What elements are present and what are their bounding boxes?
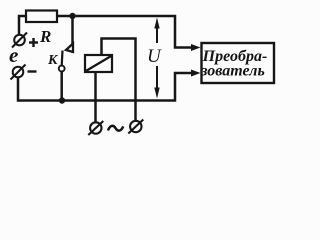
converter box [202, 43, 275, 83]
switch K contact triangle [66, 44, 73, 53]
relay coil (rect with diagonal) [85, 55, 112, 72]
wire: top rail from left corner to converter lead [19, 16, 192, 48]
tilde (AC) [108, 126, 123, 131]
terminal plus (circle with slash) [12, 33, 27, 48]
node: junction dot on bottom rail [59, 97, 65, 103]
svg-text:К: К [47, 53, 59, 68]
wire: bottom rail from minus terminal to converter lead [18, 73, 192, 101]
arrow into converter (upper) [191, 44, 201, 51]
switch K blade [61, 51, 64, 66]
wire: switch pivot to bottom rail [60, 72, 63, 101]
AC terminal right (circle with slash) [128, 120, 143, 134]
arrow into converter (lower) [191, 70, 201, 77]
node: junction dot on top rail [69, 13, 75, 19]
wire: coil top lead to right AC terminal [102, 39, 136, 121]
U measurement arrow upper segment with arrowhead [156, 28, 158, 43]
svg-text:U: U [147, 46, 162, 67]
resistor R [26, 11, 57, 23]
U measurement arrow lower segment with arrowhead [156, 66, 158, 88]
minus sign [28, 70, 37, 72]
terminal minus (circle with slash) [11, 65, 26, 80]
wire: coil bottom lead to left AC terminal [94, 72, 97, 122]
plus sign [29, 38, 38, 47]
AC terminal left (circle with slash) [88, 121, 103, 135]
svg-text:e: e [9, 43, 18, 67]
svg-text:R: R [39, 27, 51, 46]
wire: switch fixed lead from top junction [71, 16, 74, 52]
svg-text:зователь: зователь [200, 63, 265, 80]
switch K pivot circle [59, 66, 65, 72]
